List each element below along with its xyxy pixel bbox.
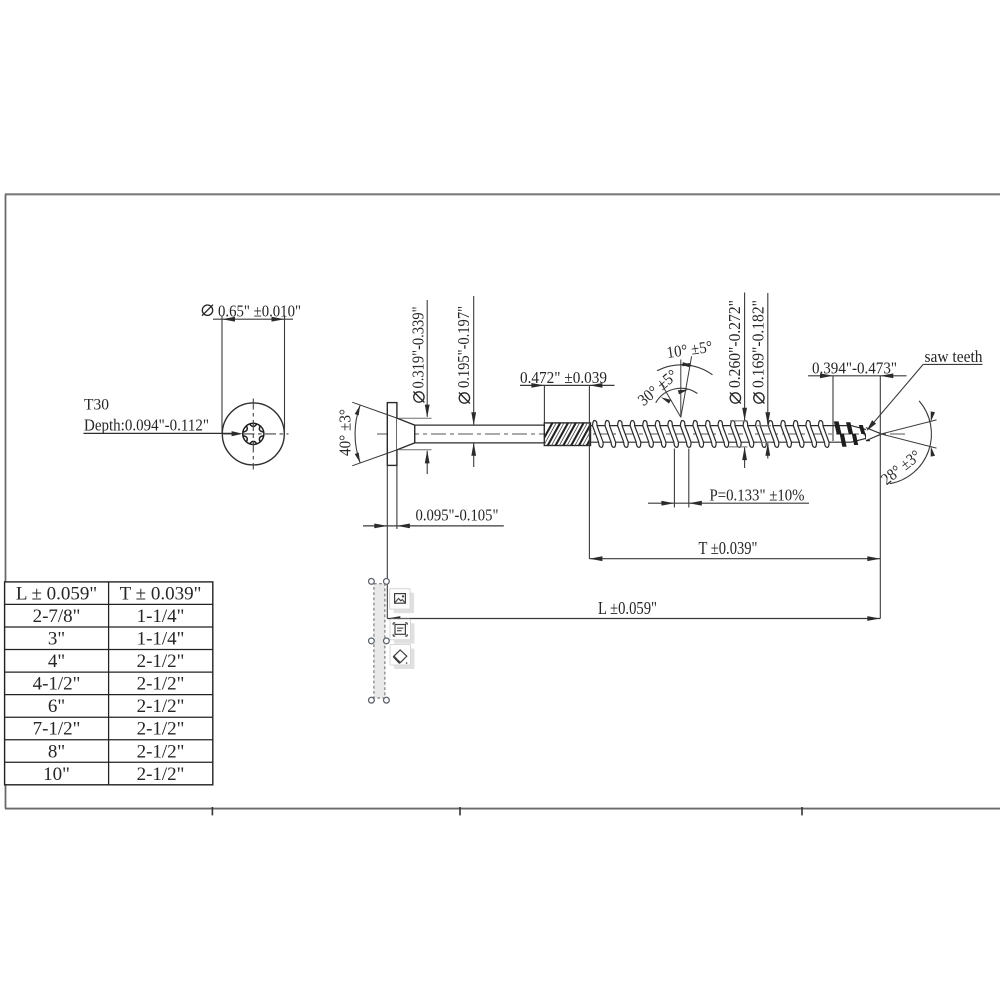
svg-text:6": 6" bbox=[48, 696, 65, 717]
30 deg label bbox=[634, 365, 681, 409]
svg-text:1-1/4": 1-1/4" bbox=[137, 606, 185, 627]
svg-text:2-1/2": 2-1/2" bbox=[137, 741, 185, 762]
svg-text:2-1/2": 2-1/2" bbox=[137, 719, 185, 740]
svg-text:3": 3" bbox=[48, 629, 65, 650]
center lines of top view bbox=[252, 399, 254, 470]
size table bbox=[5, 582, 213, 785]
point tip bbox=[866, 428, 881, 441]
svg-text:Depth:0.094"-0.112": Depth:0.094"-0.112" bbox=[84, 416, 209, 435]
svg-text:0.260"-0.272": 0.260"-0.272" bbox=[725, 300, 744, 388]
screw point cone bbox=[851, 426, 881, 434]
knurled thread-cutter section bbox=[538, 420, 609, 449]
fold tick marks on bottom border bbox=[211, 807, 213, 815]
40 deg label bbox=[336, 409, 355, 456]
countersunk cone of head bbox=[397, 418, 415, 450]
svg-text:0.394"-0.473": 0.394"-0.473" bbox=[812, 359, 897, 378]
dia 0.319-0.339 dimension bbox=[399, 417, 432, 419]
svg-text:saw teeth: saw teeth bbox=[925, 347, 984, 366]
dia 0.260-0.272 dimension bbox=[730, 420, 748, 422]
svg-text:T ±0.039": T ±0.039" bbox=[699, 538, 758, 558]
svg-text:T ± 0.039": T ± 0.039" bbox=[120, 584, 202, 605]
svg-text:2-7/8": 2-7/8" bbox=[33, 606, 81, 627]
svg-text:10° ±5°: 10° ±5° bbox=[665, 337, 713, 362]
svg-text:0.472" ±0.039: 0.472" ±0.039 bbox=[520, 368, 607, 387]
svg-text:P=0.133" ±10%: P=0.133" ±10% bbox=[710, 486, 805, 505]
svg-text:0.095"-0.105": 0.095"-0.105" bbox=[416, 506, 499, 525]
40 deg dimension arc bbox=[355, 405, 360, 462]
0.472 knurl length dimension bbox=[543, 385, 545, 422]
svg-text:0.65" ±0.010": 0.65" ±0.010" bbox=[218, 302, 301, 321]
svg-text:2-1/2": 2-1/2" bbox=[137, 651, 185, 672]
drawing frame bottom border bbox=[5, 808, 1000, 810]
svg-text:0.195"-0.197": 0.195"-0.197" bbox=[454, 306, 473, 388]
dia 0.65 dimension line with arrows bbox=[213, 318, 293, 320]
28 deg label bbox=[877, 446, 924, 489]
svg-text:40° ±3°: 40° ±3° bbox=[336, 409, 355, 456]
svg-text:30° ±5°: 30° ±5° bbox=[634, 365, 681, 409]
svg-text:4": 4" bbox=[48, 651, 65, 672]
svg-text:2-1/2": 2-1/2" bbox=[137, 764, 185, 785]
selection handles bbox=[369, 579, 375, 585]
dia 0.169-0.182 dimension bbox=[757, 425, 771, 427]
P pitch dimension bbox=[673, 449, 675, 508]
L overall length dimension bbox=[387, 618, 880, 620]
svg-text:7-1/2": 7-1/2" bbox=[33, 719, 81, 740]
svg-text:0.169"-0.182": 0.169"-0.182" bbox=[749, 300, 768, 388]
toolbar button: eraser/diamond bbox=[390, 645, 415, 670]
dia 0.195-0.197 dimension bbox=[473, 296, 475, 424]
40 deg cone construction lines bbox=[352, 402, 397, 418]
0.394-0.473 point length dimension bbox=[832, 376, 834, 441]
svg-text:L ±0.059": L ±0.059" bbox=[598, 598, 657, 618]
10 deg label bbox=[665, 337, 713, 362]
svg-text:L ± 0.059": L ± 0.059" bbox=[16, 584, 97, 605]
drawing frame left border bbox=[5, 194, 7, 808]
screw center line bbox=[377, 433, 905, 435]
head flange (side view) bbox=[387, 403, 397, 466]
svg-text:10": 10" bbox=[43, 764, 70, 785]
dia 0.65 label bbox=[202, 305, 212, 315]
threaded shank core bbox=[590, 425, 851, 427]
T thread length dimension bbox=[589, 558, 880, 560]
toolbar button: insert text box bbox=[390, 619, 415, 644]
torx recess T30 bbox=[243, 423, 264, 444]
shank cylinder bbox=[415, 424, 545, 426]
svg-text:T30: T30 bbox=[84, 397, 109, 414]
svg-text:2-1/2": 2-1/2" bbox=[137, 696, 185, 717]
0.095-0.105 head thickness dimension bbox=[386, 466, 388, 619]
drawing frame top border bbox=[5, 193, 1000, 195]
editor selection dashed frame bbox=[374, 584, 385, 698]
dia 0.65 dimension: extension lines bbox=[221, 316, 223, 434]
thread helix bands bbox=[593, 420, 604, 447]
saw-tooth serrations on point bbox=[834, 421, 842, 434]
svg-text:28° ±3°: 28° ±3° bbox=[877, 446, 924, 489]
28 deg point angle bbox=[881, 420, 937, 434]
30 deg arc bbox=[656, 388, 698, 403]
svg-text:8": 8" bbox=[48, 741, 65, 762]
svg-text:4-1/2": 4-1/2" bbox=[33, 674, 81, 695]
toolbar button: insert image bbox=[390, 589, 414, 614]
svg-text:0.319"-0.339": 0.319"-0.339" bbox=[409, 307, 428, 389]
svg-text:1-1/4": 1-1/4" bbox=[137, 629, 185, 650]
thread angle construction 10/30 deg bbox=[680, 360, 682, 418]
head outer circle (top view) bbox=[222, 403, 284, 465]
10 deg arc bbox=[657, 365, 713, 375]
svg-text:2-1/2": 2-1/2" bbox=[137, 674, 185, 695]
